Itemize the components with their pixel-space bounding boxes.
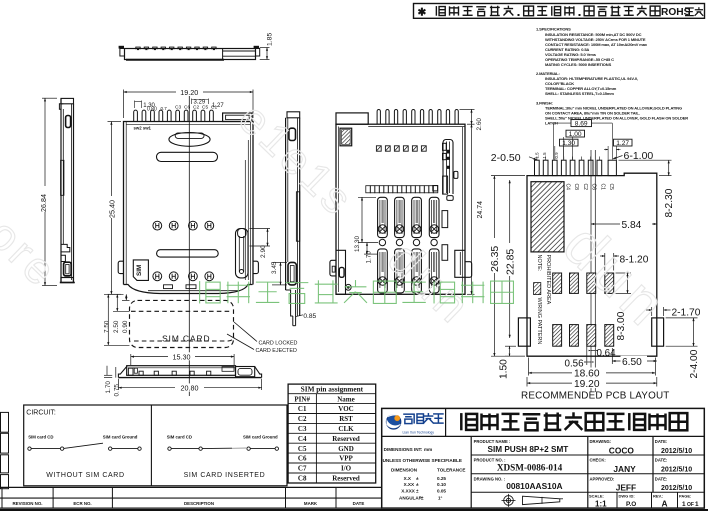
title block grid — [470, 436, 472, 508]
svg-text:1.70: 1.70 — [105, 381, 112, 394]
dim 0.64 — [591, 350, 595, 352]
open switch blade — [64, 443, 103, 448]
row of 6 vent squares — [376, 146, 381, 151]
svg-text:22.85: 22.85 — [504, 249, 516, 275]
bottom line — [118, 377, 261, 379]
svg-text:2.90: 2.90 — [260, 245, 267, 258]
svg-text:CLK: CLK — [338, 425, 354, 433]
svg-text:PRODUCT NAME :: PRODUCT NAME : — [474, 439, 511, 444]
svg-text:PROHIBITED AREA: PROHIBITED AREA — [545, 255, 551, 305]
card state leader lines — [234, 322, 257, 342]
svg-text:XDSM-0086-014: XDSM-0086-014 — [497, 463, 563, 473]
left side view — [61, 98, 74, 103]
svg-text:CARD EJECTED: CARD EJECTED — [256, 348, 297, 354]
svg-text:8-2.30: 8-2.30 — [664, 188, 675, 217]
svg-text:C8: C8 — [298, 475, 307, 483]
front view body — [127, 366, 236, 376]
svg-text:C3: C3 — [298, 425, 307, 433]
projection symbols — [504, 496, 514, 506]
svg-text:SIM CARD INSERTED: SIM CARD INSERTED — [184, 472, 266, 479]
svg-text:2012/5/10: 2012/5/10 — [661, 448, 692, 455]
svg-text:C1: C1 — [599, 184, 605, 191]
closed switch blade — [202, 447, 232, 449]
top slot — [289, 128, 296, 140]
dim 2.60 (pins) — [460, 108, 475, 110]
left flange — [120, 49, 125, 57]
svg-text:1.5: 1.5 — [542, 152, 547, 159]
svg-text:0.9: 0.9 — [554, 152, 559, 159]
svg-text:C4: C4 — [565, 184, 571, 191]
top slot — [66, 116, 71, 128]
svg-text:19.20: 19.20 — [180, 88, 198, 97]
svg-text:DATE:: DATE: — [655, 476, 667, 481]
bottom black scan bar — [0, 509, 708, 511]
svg-text:2012/5/10: 2012/5/10 — [661, 467, 692, 474]
main top view body — [124, 122, 254, 285]
svg-text:Lian Xun Technology: Lian Xun Technology — [403, 430, 435, 434]
svg-text:SHELL:50u" NICKEL UNDERPLATED: SHELL:50u" NICKEL UNDERPLATED ON ALLOVER… — [545, 116, 688, 121]
dim 26.35 — [491, 175, 525, 177]
dim 8-2.30 — [619, 159, 672, 161]
right small slots — [442, 211, 448, 228]
svg-text:2012/5/10: 2012/5/10 — [661, 485, 692, 492]
svg-text:ANGULAR: ANGULAR — [399, 495, 423, 500]
svg-text:±: ± — [416, 476, 419, 481]
oval emboss — [169, 133, 210, 147]
svg-text:C2: C2 — [582, 184, 588, 191]
svg-text:ROHS: ROHS — [661, 7, 691, 18]
svg-text:SIM CARD: SIM CARD — [162, 334, 210, 344]
dim 2-1.70 — [651, 307, 653, 316]
svg-text:JANY: JANY — [613, 464, 636, 474]
top-left notch block — [336, 113, 368, 124]
svg-text:1.5: 1.5 — [535, 152, 540, 159]
10 top pins — [134, 110, 138, 121]
svg-text:15.30: 15.30 — [173, 352, 191, 361]
svg-text:TOLERANCE: TOLERANCE — [437, 467, 466, 472]
svg-text:X.X: X.X — [404, 476, 412, 481]
pin feet row — [136, 47, 140, 49]
lower slot — [288, 262, 296, 285]
bottom stem — [286, 290, 293, 316]
middle pads row 2 (hatched) — [553, 325, 562, 347]
bottom foot — [61, 278, 73, 283]
dim 22.85 — [509, 180, 511, 338]
svg-text:ECR NO.: ECR NO. — [73, 501, 91, 506]
right flange — [256, 49, 260, 57]
svg-text:C1: C1 — [298, 405, 307, 413]
svg-text:JEFF: JEFF — [616, 483, 636, 493]
dim 2.90 (slider) — [250, 228, 271, 230]
left side bump — [118, 261, 123, 273]
side pads — [518, 318, 530, 346]
svg-text:2.50: 2.50 — [113, 320, 120, 333]
lower hooks — [61, 244, 70, 252]
solder feet — [139, 371, 143, 375]
svg-text:1: 1 — [695, 501, 699, 508]
dim 2-4.00 — [666, 317, 698, 319]
svg-text:X.XX: X.XX — [404, 482, 415, 487]
svg-text:DATE:: DATE: — [655, 439, 667, 444]
middle rounded slot — [157, 250, 219, 257]
top edge (side) view body — [125, 49, 256, 60]
svg-text:26.84: 26.84 — [39, 194, 48, 212]
svg-text:C5: C5 — [202, 105, 208, 111]
svg-text:SIM pin assignment: SIM pin assignment — [301, 385, 364, 394]
svg-text:1.00: 1.00 — [569, 131, 582, 138]
dim 1.50 — [505, 345, 516, 347]
dim 26.84 — [42, 97, 57, 99]
right wing — [255, 367, 262, 378]
svg-text:NOTE:: NOTE: — [536, 255, 542, 272]
svg-text:3.45: 3.45 — [271, 261, 278, 274]
dim 5.84 — [591, 223, 657, 225]
svg-text:C5: C5 — [608, 184, 614, 191]
dim 1.70 (middle view) — [366, 243, 368, 255]
SIM card dashed outline — [130, 300, 234, 347]
svg-text:26.35: 26.35 — [489, 246, 501, 272]
svg-text:0.75: 0.75 — [114, 384, 121, 397]
svg-text:DIMENSIONS INT:: DIMENSIONS INT: — [384, 447, 423, 452]
dim 1.85 — [260, 47, 270, 49]
boxed dim 1.00 — [566, 130, 585, 137]
svg-text:REVISION NO.: REVISION NO. — [12, 501, 42, 506]
svg-text:A: A — [662, 499, 668, 509]
logo icon — [386, 415, 401, 430]
svg-text:C6: C6 — [298, 455, 307, 463]
svg-text:SCALE:: SCALE: — [589, 493, 604, 498]
thick bottom edge — [126, 59, 224, 61]
svg-text:PIN#: PIN# — [294, 395, 310, 403]
svg-text:P.O: P.O — [626, 501, 636, 508]
svg-text:APPROVED:: APPROVED: — [590, 476, 615, 481]
boxed dim 1.30 — [560, 139, 579, 146]
svg-text:OF: OF — [687, 502, 694, 508]
SIM marking box — [133, 260, 148, 281]
corner solder tabs — [119, 46, 124, 48]
small circles between terminal rows — [379, 239, 385, 245]
svg-text:CIRCUIT:: CIRCUIT: — [26, 410, 56, 417]
svg-text:DRAWING:: DRAWING: — [590, 439, 612, 444]
notice text (CJK approximated) — [418, 6, 704, 19]
contact window circles row 1 — [153, 221, 162, 230]
gray watermark letters — [0, 94, 682, 341]
svg-text:1.27: 1.27 — [616, 140, 629, 147]
svg-text:1.SPECIFICATIONS: 1.SPECIFICATIONS — [536, 27, 571, 32]
svg-text:VOC: VOC — [338, 405, 353, 413]
eject slider — [244, 160, 246, 280]
svg-text:3.29: 3.29 — [194, 99, 206, 105]
svg-text:PAGE:: PAGE: — [679, 493, 691, 498]
svg-text:C2: C2 — [193, 105, 199, 111]
svg-text:DRAWING NO. :: DRAWING NO. : — [474, 476, 505, 481]
svg-text:1.50: 1.50 — [498, 359, 509, 379]
center axis line — [188, 96, 190, 396]
right side bump — [253, 261, 258, 273]
svg-text:DIMENSION: DIMENSION — [391, 467, 418, 472]
title block frame — [382, 408, 705, 508]
svg-text:VPP: VPP — [339, 455, 353, 463]
bottom-left rivet circle — [345, 284, 351, 290]
svg-text:±: ± — [421, 495, 424, 500]
svg-text:24.74: 24.74 — [477, 201, 484, 219]
svg-text:C2: C2 — [298, 415, 307, 423]
svg-text:0.85: 0.85 — [303, 313, 316, 320]
svg-text:Reserved: Reserved — [332, 435, 360, 443]
svg-text:1.30: 1.30 — [562, 140, 575, 147]
svg-text:MATING CYCLES: 5000 INSERTIONS: MATING CYCLES: 5000 INSERTIONS — [545, 62, 612, 67]
svg-text:SHELL: STAINLESS STEEL,T=0.15m: SHELL: STAINLESS STEEL,T=0.15mm — [545, 91, 614, 96]
svg-text:mm: mm — [424, 447, 432, 452]
svg-text:C8: C8 — [573, 184, 579, 191]
svg-text:6.50: 6.50 — [622, 357, 642, 368]
PCB layout outline — [527, 173, 657, 356]
svg-text:13.30: 13.30 — [354, 236, 361, 252]
svg-text:0.80: 0.80 — [147, 107, 157, 113]
svg-text:0.05: 0.05 — [437, 488, 446, 493]
svg-text:RECOMMENDED PCB LAYOUT: RECOMMENDED PCB LAYOUT — [521, 391, 670, 402]
svg-text:1: 1 — [682, 501, 686, 508]
svg-text:SIM card CD: SIM card CD — [28, 435, 53, 440]
middle pads row 1 (hatched) — [553, 273, 562, 293]
right top tab — [223, 113, 252, 122]
card detect switch assembly — [443, 140, 453, 195]
left margin cells — [1, 412, 9, 432]
svg-text:WITHOUT SIM CARD: WITHOUT SIM CARD — [46, 472, 124, 479]
green CJK watermark (approximated) — [200, 280, 514, 303]
svg-text:1.27: 1.27 — [212, 103, 224, 109]
top ROHS notice box — [414, 4, 705, 19]
svg-text:CHECK:: CHECK: — [590, 458, 606, 463]
svg-text:dun: dun — [377, 232, 482, 336]
body bottom curved edge — [124, 285, 253, 294]
upper rounded slot — [157, 152, 218, 161]
left wing — [118, 367, 126, 378]
middle open view body — [336, 124, 465, 294]
svg-text:2-4.00: 2-4.00 — [689, 349, 700, 378]
bottom revision strip — [0, 486, 382, 488]
mid slot on right wall — [296, 192, 299, 241]
dim 3.45 — [272, 261, 287, 263]
svg-text:SIM card Ground: SIM card Ground — [243, 435, 278, 440]
svg-text:I/O: I/O — [341, 465, 352, 473]
dim 19.20 (pcb) — [526, 377, 528, 387]
dim 15.30 — [130, 354, 132, 365]
svg-text:sw2 sw1: sw2 sw1 — [134, 126, 152, 131]
svg-text:C6: C6 — [591, 184, 597, 191]
svg-text:7.50: 7.50 — [104, 320, 111, 333]
dim 25.40 — [108, 121, 122, 123]
company name CJK (approximated) — [461, 413, 477, 430]
svg-text:2-1.70: 2-1.70 — [672, 308, 701, 319]
svg-text:1:1: 1:1 — [595, 499, 607, 508]
dims 1.70 / 0.75 — [104, 374, 112, 376]
dim 19.20 — [123, 90, 125, 119]
svg-text:2.60: 2.60 — [476, 118, 483, 131]
svg-text:DESCRIPTION: DESCRIPTION — [184, 501, 214, 506]
middle view top pins — [377, 110, 380, 125]
svg-text:Reserved: Reserved — [332, 475, 360, 483]
dim 18.60 — [528, 358, 530, 376]
svg-text:SIM card CD: SIM card CD — [167, 435, 192, 440]
svg-text:0.90: 0.90 — [122, 320, 129, 333]
svg-text:C7: C7 — [298, 465, 307, 473]
logo CJK name (approximated) — [403, 414, 413, 423]
svg-text:MARK: MARK — [304, 501, 318, 506]
svg-text:25.40: 25.40 — [108, 200, 117, 218]
right side view — [287, 112, 300, 118]
svg-text:C5: C5 — [298, 445, 307, 453]
dim 0.85 leader — [296, 315, 303, 317]
svg-text:DATE: DATE — [353, 501, 365, 506]
svg-text:1.70: 1.70 — [366, 251, 373, 264]
svg-text:C6: C6 — [184, 105, 190, 111]
dims 7.50 / 2.50 / 0.90 — [107, 294, 109, 345]
comb strip of 16 squares — [366, 186, 371, 193]
svg-text:00810AAS10A: 00810AAS10A — [506, 481, 562, 491]
svg-text:SIM: SIM — [136, 265, 143, 276]
dim 8-1.20 — [604, 253, 606, 271]
svg-text:1.85: 1.85 — [267, 33, 274, 46]
dim 8-3.00 — [616, 272, 632, 274]
inner divider and right block lines — [222, 49, 224, 60]
dim 0.56 — [586, 346, 588, 365]
svg-text:CARD LOCKED: CARD LOCKED — [259, 340, 298, 346]
svg-text:SIM card Ground: SIM card Ground — [103, 435, 138, 440]
svg-text:DWG ID:: DWG ID: — [619, 493, 635, 498]
8 contact terminals — [378, 197, 388, 237]
dim 13.30 — [358, 196, 376, 198]
svg-text:WIRING PATTERN: WIRING PATTERN — [536, 298, 542, 345]
svg-text:GND: GND — [338, 445, 354, 453]
svg-text:8.69: 8.69 — [575, 120, 588, 127]
dim 20.80 — [117, 379, 119, 390]
SIM logo block — [340, 128, 352, 146]
PCB center lines — [590, 150, 592, 392]
svg-text:SIM PUSH 8P+2 SMT: SIM PUSH 8P+2 SMT — [488, 445, 569, 454]
prohibited area hatch — [531, 182, 564, 252]
dim 24.74 — [467, 293, 475, 295]
svg-text:C3: C3 — [175, 105, 181, 111]
SIM pin assignment table — [288, 384, 376, 483]
contact window circles row 2 — [153, 272, 162, 281]
svg-text:0.10: 0.10 — [437, 482, 446, 487]
svg-text:X.XXX: X.XXX — [401, 488, 415, 493]
boxed dim 8.69 — [571, 120, 592, 127]
svg-text:ore: ore — [0, 210, 67, 298]
svg-text:±: ± — [416, 488, 419, 493]
top solder pads — [535, 160, 540, 175]
svg-text:0.25: 0.25 — [437, 476, 446, 481]
svg-text:2-0.50: 2-0.50 — [491, 152, 521, 164]
circuit box — [24, 405, 287, 486]
svg-text:RST: RST — [339, 415, 353, 423]
svg-text:19.20: 19.20 — [574, 379, 600, 390]
boxed dim 1.27 — [614, 139, 633, 146]
eject housing — [236, 367, 255, 377]
svg-text:5.84: 5.84 — [622, 220, 642, 231]
svg-text:20.80: 20.80 — [181, 383, 199, 392]
svg-text:1°: 1° — [438, 495, 443, 500]
dim 6.50 — [611, 348, 613, 364]
pad center leader ticks — [536, 157, 538, 161]
bottom row cells — [616, 492, 618, 508]
svg-text:C4: C4 — [298, 435, 307, 443]
svg-text:DATE:: DATE: — [655, 458, 667, 463]
bottom slot frame — [64, 262, 72, 276]
left bracket — [336, 250, 346, 294]
svg-text:dun: dun — [551, 211, 683, 341]
svg-text:0.64: 0.64 — [597, 348, 617, 359]
svg-text:✱: ✱ — [418, 7, 427, 19]
mid slot on left wall — [61, 160, 64, 195]
svg-text:UNLESS OTHERWISE SPECIFIABLE: UNLESS OTHERWISE SPECIFIABLE — [383, 458, 462, 463]
svg-text:COCO: COCO — [609, 445, 635, 455]
right bracket — [455, 250, 465, 277]
svg-text:Name: Name — [337, 395, 355, 403]
specifications text block — [536, 27, 688, 126]
svg-text:±: ± — [416, 482, 419, 487]
